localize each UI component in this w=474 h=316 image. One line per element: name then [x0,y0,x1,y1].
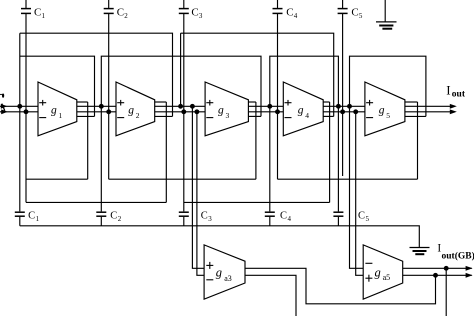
Iout(GB) arrowhead lower [466,273,473,278]
wire: ga3 out upper to Iout(GB) join [245,268,436,304]
wire: g4 out- to node5 [323,111,365,113]
svg-text:out(GB): out(GB) [442,250,474,261]
capacitor C4 (bottom) [265,212,275,226]
wire: low rail g4out+ to node3- (y=202) [184,201,330,203]
svg-text:C: C [110,211,117,222]
wire: feedback rail g4out- to node3+ (y=33) [181,33,334,116]
wire: low seg g1out+ to node1- (y=179) [26,178,88,180]
wire: node5- vertical (top C5 to low seg) [342,13,344,176]
capacitor C1 (bottom) [15,212,25,226]
svg-text:4: 4 [305,111,309,120]
svg-text:C: C [201,211,208,222]
op-amp ga3 [204,245,245,299]
svg-text:5: 5 [386,111,390,120]
g5 output stubs and feedback verticals [405,101,418,103]
wire: node2+ vertical to bottom cap C2 [100,106,102,211]
svg-text:C: C [280,211,287,222]
wire: differential input + line [0,105,38,107]
svg-text:a3: a3 [224,274,232,283]
svg-text:2: 2 [118,215,122,223]
wire: low seg g3out+ to node2- (y=179) [109,178,256,180]
svg-text:g: g [218,105,224,117]
wire: g5 out+ to output arrow [405,105,455,107]
wire: g1 out- to node2 [77,111,116,113]
svg-text:4: 4 [294,12,298,20]
wire: ground rail (y=226) [20,226,420,248]
wire: g3 out- to node4 [248,111,283,113]
wire: g5 out- to output arrow [405,111,455,113]
input arrowhead + [1,104,8,109]
wire: node1- vertical (top C1 / - input / low rails) [25,13,27,202]
g1 output stubs and feedback verticals [77,101,88,103]
svg-text:3: 3 [226,111,230,120]
svg-text:C: C [351,7,358,19]
g3 output stubs and feedback verticals [248,101,256,103]
op-amp g5 [365,82,405,136]
svg-text:g: g [51,105,57,117]
wire: node3- vertical (top C3 to low rail and bottom cap C3) [183,13,185,211]
input split diagonal [2,104,5,111]
wire: feedback seg g1out- to node1+ (y=56) [20,56,95,116]
wire: g4 out+ to node5 [323,105,365,107]
svg-text:C: C [286,7,293,19]
op-amp ga5 [363,245,403,299]
op-amp g1 [38,82,77,136]
wire: g2 out- to node3 [155,111,205,113]
svg-text:1: 1 [36,215,40,223]
ground (top right) [376,0,397,29]
wire: differential input - line [0,111,38,113]
wire: node5+ tap to ga5 top input [350,106,364,268]
output arrowhead - [450,109,457,114]
svg-text:g: g [379,105,385,117]
wire: node4- vertical (top C4 to low seg) [277,13,279,179]
svg-text:3: 3 [208,215,212,223]
svg-text:4: 4 [288,215,292,223]
svg-text:1: 1 [42,12,46,20]
ground (bottom right) [410,248,430,255]
wire: node2- vertical (top C2 to low seg) [108,13,110,179]
wire: node1+ vertical (rail A / + input / bottom cap C1) [19,33,21,211]
wire: node5+ vertical to bottom cap C5 [337,106,339,211]
op-amp g2 [116,82,155,136]
svg-text:C: C [28,211,35,222]
svg-text:C: C [117,7,124,19]
capacitor C1 (top) [21,0,31,13]
capacitor C3 (bottom) [179,212,189,226]
output arrowhead + [450,104,457,109]
wire: node4+ vertical to bottom cap C4 [269,106,271,211]
svg-text:g: g [128,105,134,117]
wire: g1 out+ to node2 [77,105,116,107]
Iout(GB) arrowhead upper [466,266,473,271]
input arrowhead - [1,109,8,114]
capacitor C3 (top) [179,0,189,13]
wire: low rail g2out+ to node1- (y=202) [26,201,166,203]
wire: seg node4+ to node5+ (y=56) [270,56,339,106]
svg-text:C: C [191,7,198,19]
svg-text:g: g [216,266,222,280]
wire: feedback seg g5out- to node5+ (y=56) [350,56,426,116]
svg-text:5: 5 [359,12,363,20]
svg-text:g: g [375,265,381,279]
svg-text:out: out [452,89,466,99]
wire: g2 out+ to node3 [155,105,205,107]
label Iin fragment at left edge [0,93,2,95]
capacitor C5 (bottom) [333,212,343,226]
wire: low seg node4- / node5- / g5out+ (y=179) [278,178,418,180]
capacitor C4 (top) [273,0,283,13]
capacitor C2 (bottom) [96,212,106,226]
capacitor C2 (top) [104,0,114,13]
g2 output stubs and feedback verticals [155,101,167,103]
wire: feedback seg g3out- to node2+ (y=56) [101,56,261,116]
svg-text:5: 5 [366,215,370,223]
wire: feedback rail g2out- to node1+ (y=33) [20,33,173,116]
wire: node3- tap to ga3 - input [197,112,204,275]
wire: node3+ vertical from rail B [180,33,182,106]
wire: g3 out+ to node4 [248,105,283,107]
wire: node3+ tap to ga3 + input [192,106,204,268]
svg-text:2: 2 [136,111,140,120]
svg-text:C: C [358,211,365,222]
svg-text:a5: a5 [383,273,391,282]
svg-text:1: 1 [59,111,63,120]
op-amp g3 [205,82,248,136]
svg-text:I: I [446,83,450,98]
svg-text:g: g [298,105,304,117]
svg-text:2: 2 [124,12,128,20]
capacitor C5 (top) [338,0,348,13]
op-amp g4 [283,82,323,136]
wire: ga5 out upper to Iout(GB) arrow [403,267,472,269]
wire: Iout(GB) upper dot vertical off bottom [445,268,447,316]
wire: node5- tap to ga5 bottom input [356,112,364,275]
svg-text:C: C [34,7,41,19]
svg-text:3: 3 [199,12,203,20]
wire: ga3 out lower off bottom edge [245,275,296,316]
wire: ga5 out lower to Iout(GB) arrow [403,274,472,276]
g4 output stubs and feedback verticals [323,101,329,103]
